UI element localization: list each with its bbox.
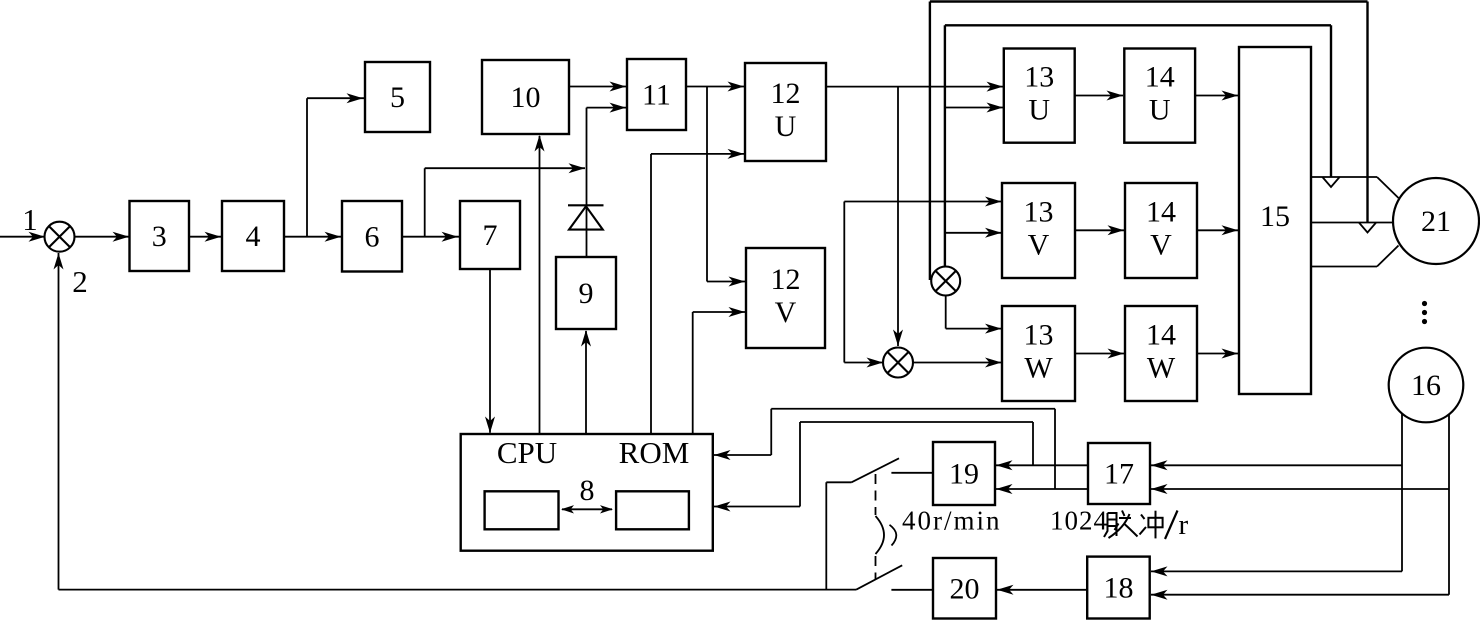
svg-text:16: 16 xyxy=(1411,369,1441,402)
diode D1 xyxy=(568,205,604,229)
encoder wire left leg to 17 and 18 xyxy=(1151,414,1402,577)
wire 12U to 13U xyxy=(826,82,1003,92)
wire CPU up to 12V lower input xyxy=(693,307,745,434)
motor phase line A xyxy=(1311,177,1399,198)
motor phase line B xyxy=(1311,222,1394,224)
ellipsis dots xyxy=(1422,301,1427,324)
wire feedback branch to 13V lower input xyxy=(945,228,1002,238)
feedback wire top outer xyxy=(930,2,1368,281)
wire 6 to 7 with junction xyxy=(402,232,459,242)
svg-text:9: 9 xyxy=(579,277,594,310)
motor 21 xyxy=(1393,178,1479,264)
block 19 xyxy=(933,442,995,505)
svg-text:W: W xyxy=(1024,352,1053,385)
svg-text:12: 12 xyxy=(771,77,801,110)
svg-text:4: 4 xyxy=(246,220,261,253)
svg-text:U: U xyxy=(775,110,797,143)
wire 18 to 20 xyxy=(997,585,1087,595)
feedback wire top inner xyxy=(945,25,1331,266)
block 12V xyxy=(746,248,825,348)
svg-text:U: U xyxy=(1028,94,1050,127)
wire S1 to block 3 xyxy=(75,232,131,242)
wire CPU up to block 9 xyxy=(581,330,591,434)
svg-text:8: 8 xyxy=(580,474,595,507)
wire 13W to 14W xyxy=(1075,349,1124,359)
switch upper arm xyxy=(826,458,899,482)
svg-text:10: 10 xyxy=(511,81,541,114)
svg-text:5: 5 xyxy=(390,81,405,114)
wire 7 down to CPU xyxy=(485,269,495,433)
block 4 xyxy=(222,201,284,271)
svg-text:U: U xyxy=(1149,94,1171,127)
wire S2 to 13W upper input xyxy=(946,296,1002,334)
wire branch up to block 5 xyxy=(307,93,364,237)
svg-text:19: 19 xyxy=(949,458,979,491)
motor phase line C xyxy=(1311,246,1399,267)
chevron tap on motor line A xyxy=(1322,177,1339,187)
svg-text:12: 12 xyxy=(771,263,801,296)
bus double arrow xyxy=(561,505,613,513)
glyph mai xyxy=(1104,511,1138,539)
svg-text:7: 7 xyxy=(483,219,498,252)
wire 10 to 11 xyxy=(569,82,626,92)
svg-text:1: 1 xyxy=(22,202,38,237)
block 6 xyxy=(342,201,402,272)
wire diode branch to 11 lower input xyxy=(587,103,627,257)
wire tap to ROM lower xyxy=(714,422,1033,512)
svg-text:3: 3 xyxy=(152,220,167,253)
summing junction S2 xyxy=(931,267,960,296)
svg-text:CPU: CPU xyxy=(497,435,557,470)
svg-text:18: 18 xyxy=(1103,572,1133,605)
wire 14U to 15 xyxy=(1195,91,1238,101)
wire input 1 into summing junction xyxy=(0,232,46,242)
block 7 xyxy=(460,201,520,269)
block 20 xyxy=(933,558,996,619)
wire 14V to 15 xyxy=(1197,225,1238,235)
svg-text:40r/min: 40r/min xyxy=(902,506,1002,536)
switch linkage dashed xyxy=(875,474,877,579)
feedback bottom wire to S1 xyxy=(54,253,857,590)
block 18 xyxy=(1087,557,1150,619)
wire CPU up to block 10 xyxy=(535,135,545,434)
wire 13V to 14V xyxy=(1075,225,1124,235)
svg-text:V: V xyxy=(775,296,797,329)
svg-text:6: 6 xyxy=(365,220,380,253)
block 14U xyxy=(1124,49,1195,143)
wire feedback branch to 13U lower input xyxy=(945,103,1003,113)
block 15 xyxy=(1239,47,1311,394)
wire 4 to 6 with junction xyxy=(284,232,342,242)
wire CPU up to 12U lower input xyxy=(651,149,744,434)
switch linkage arc xyxy=(876,516,885,554)
block 13U xyxy=(1004,49,1075,143)
wire 11 to 12U with junction to 12V xyxy=(686,82,745,287)
svg-text:15: 15 xyxy=(1260,200,1290,233)
glyph chong xyxy=(1140,511,1163,539)
svg-text:13: 13 xyxy=(1024,319,1054,352)
block 17 xyxy=(1088,443,1150,504)
svg-text:14: 14 xyxy=(1145,61,1175,94)
CPU ROM box xyxy=(461,434,713,551)
wire junction down to summing junction S3 xyxy=(893,87,903,346)
summing junction S3 xyxy=(883,348,913,378)
summing junction S1 xyxy=(45,222,75,252)
svg-text:V: V xyxy=(1028,229,1050,262)
svg-text:11: 11 xyxy=(642,79,671,112)
switch pole wire down xyxy=(825,482,827,589)
switch upper contact wire to 19 xyxy=(891,472,933,474)
wire corner to 13V upper input and S3 xyxy=(844,197,1001,368)
block 14V xyxy=(1125,183,1197,278)
block 14W xyxy=(1125,306,1197,401)
block 5 xyxy=(365,62,430,132)
block 9 xyxy=(556,257,616,329)
wire 17 to 19 lower xyxy=(996,484,1088,494)
svg-text:14: 14 xyxy=(1146,319,1176,352)
wire 14W to 15 xyxy=(1197,349,1238,359)
svg-text:17: 17 xyxy=(1104,458,1134,491)
glyph slash xyxy=(1165,511,1178,540)
svg-text:14: 14 xyxy=(1146,196,1176,229)
svg-text:1024: 1024 xyxy=(1050,506,1108,536)
switch lower contact wire to 20 xyxy=(891,589,933,591)
CPU inner register right xyxy=(616,491,689,529)
block 13W xyxy=(1002,306,1075,401)
svg-text:20: 20 xyxy=(950,572,980,605)
svg-text:21: 21 xyxy=(1421,205,1451,238)
svg-text:2: 2 xyxy=(72,264,88,299)
svg-text:13: 13 xyxy=(1024,61,1054,94)
wire branch up from node to diode line xyxy=(425,163,585,237)
encoder 16 xyxy=(1389,348,1464,423)
svg-text:W: W xyxy=(1147,352,1176,385)
block 12U xyxy=(745,63,826,161)
encoder wire right leg to 17 and 18 xyxy=(1151,414,1449,600)
switch linkage small arc xyxy=(890,525,897,546)
block 13V xyxy=(1002,183,1075,278)
CPU inner register left xyxy=(485,491,559,529)
svg-text:r: r xyxy=(1179,509,1189,541)
wire 13U to 14U xyxy=(1075,91,1123,101)
wire S3 to 13W lower input xyxy=(913,358,1002,368)
chevron tap on motor line B xyxy=(1359,223,1376,233)
block 11 xyxy=(627,59,686,130)
block 3 xyxy=(130,201,190,271)
block 10 xyxy=(482,60,569,134)
switch lower arm xyxy=(856,565,902,589)
wire tap to ROM upper xyxy=(714,409,1055,489)
svg-text:13: 13 xyxy=(1024,196,1054,229)
wire 3 to 4 xyxy=(189,232,222,242)
wire 17 to 19 upper xyxy=(996,460,1088,470)
svg-text:V: V xyxy=(1150,229,1172,262)
svg-text:ROM: ROM xyxy=(619,435,690,470)
